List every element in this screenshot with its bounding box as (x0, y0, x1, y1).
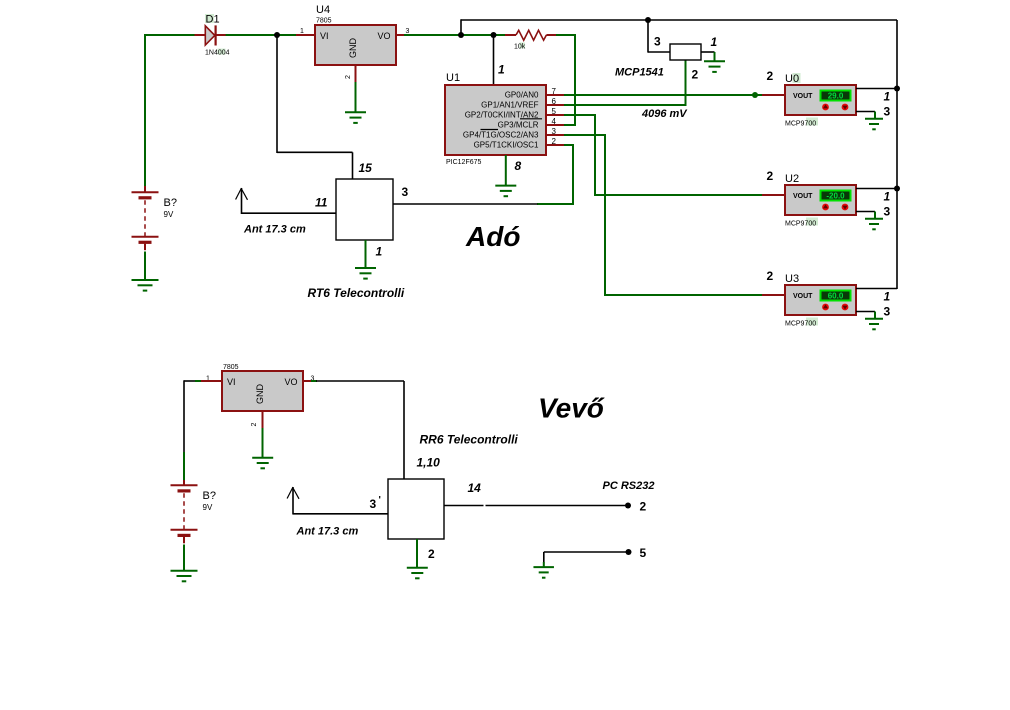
svg-text:GND: GND (255, 384, 265, 405)
svg-text:VO: VO (285, 377, 298, 387)
svg-text:MCP1541: MCP1541 (615, 67, 664, 79)
svg-text:GP5/T1CKI/OSC1: GP5/T1CKI/OSC1 (474, 141, 539, 150)
svg-text:2: 2 (692, 68, 699, 82)
svg-text:Ant 17.3 cm: Ant 17.3 cm (296, 526, 359, 538)
svg-text:': ' (379, 495, 381, 506)
svg-text:U0: U0 (785, 73, 799, 85)
svg-text:10k: 10k (514, 44, 526, 51)
svg-text:7805: 7805 (223, 364, 239, 371)
svg-text:3: 3 (884, 205, 891, 219)
svg-text:Ant 17.3 cm: Ant 17.3 cm (243, 224, 306, 236)
svg-text:MCP9700: MCP9700 (785, 121, 816, 128)
svg-text:Adó: Adó (465, 221, 520, 252)
svg-text:MCP9700: MCP9700 (785, 321, 816, 328)
svg-text:GP4/T1G/OSC2/AN3: GP4/T1G/OSC2/AN3 (463, 131, 539, 140)
svg-text:VI: VI (227, 377, 236, 387)
svg-text:14: 14 (468, 481, 482, 495)
svg-text:1: 1 (498, 63, 505, 77)
svg-text:GP3/MCLR: GP3/MCLR (498, 121, 539, 130)
svg-text:U4: U4 (316, 4, 330, 16)
svg-text:PIC12F675: PIC12F675 (446, 159, 482, 166)
svg-text:U3: U3 (785, 273, 799, 285)
svg-text:PC RS232: PC RS232 (603, 480, 655, 492)
svg-text:3: 3 (654, 35, 661, 49)
svg-text:MCP9700: MCP9700 (785, 221, 816, 228)
svg-text:4: 4 (552, 117, 557, 126)
svg-text:B?: B? (203, 490, 216, 502)
svg-text:VOUT: VOUT (793, 93, 813, 100)
svg-text:GND: GND (348, 38, 358, 59)
svg-text:2: 2 (428, 547, 435, 561)
svg-text:15: 15 (359, 161, 373, 175)
svg-text:2: 2 (767, 269, 774, 283)
svg-text:2: 2 (767, 69, 774, 83)
svg-text:Vevő: Vevő (538, 393, 605, 424)
svg-text:60.0: 60.0 (828, 292, 844, 301)
svg-text:RT6 Telecontrolli: RT6 Telecontrolli (308, 286, 405, 300)
svg-text:9V: 9V (203, 503, 213, 512)
svg-text:1: 1 (376, 245, 383, 259)
svg-text:3: 3 (370, 497, 377, 511)
svg-text:7: 7 (552, 87, 557, 96)
svg-text:3: 3 (402, 185, 409, 199)
svg-text:5: 5 (640, 546, 647, 560)
svg-text:1: 1 (884, 90, 891, 104)
svg-text:VOUT: VOUT (793, 293, 813, 300)
svg-text:VI: VI (320, 31, 329, 41)
svg-text:1: 1 (884, 190, 891, 204)
svg-text:1: 1 (711, 35, 718, 49)
svg-text:1: 1 (300, 28, 304, 35)
svg-text:8: 8 (515, 159, 522, 173)
svg-text:RR6 Telecontrolli: RR6 Telecontrolli (420, 433, 519, 447)
svg-text:9V: 9V (164, 210, 174, 219)
svg-text:1,10: 1,10 (417, 456, 441, 470)
svg-text:GP1/AN1/VREF: GP1/AN1/VREF (481, 101, 538, 110)
svg-text:4096 mV: 4096 mV (641, 108, 688, 120)
svg-text:29.0: 29.0 (828, 92, 844, 101)
svg-text:B?: B? (164, 197, 177, 209)
svg-text:2: 2 (640, 500, 647, 514)
svg-text:2: 2 (767, 169, 774, 183)
svg-text:U2: U2 (785, 173, 799, 185)
svg-text:6: 6 (552, 97, 557, 106)
svg-text:GP0/AN0: GP0/AN0 (505, 91, 539, 100)
svg-text:U1: U1 (446, 72, 460, 84)
svg-text:3: 3 (884, 105, 891, 119)
svg-text:1: 1 (884, 290, 891, 304)
svg-text:2: 2 (552, 137, 557, 146)
svg-text:3: 3 (884, 305, 891, 319)
svg-text:2: 2 (345, 75, 352, 79)
svg-text:1N4004: 1N4004 (205, 50, 230, 57)
svg-text:5: 5 (552, 107, 557, 116)
svg-text:11: 11 (315, 196, 328, 210)
svg-text:3: 3 (552, 127, 557, 136)
svg-text:-20.0: -20.0 (826, 192, 845, 201)
svg-text:2: 2 (251, 422, 258, 426)
svg-text:3: 3 (406, 28, 410, 35)
svg-text:VO: VO (378, 31, 391, 41)
svg-text:VOUT: VOUT (793, 193, 813, 200)
svg-text:D1: D1 (206, 14, 220, 26)
svg-text:7805: 7805 (316, 18, 332, 25)
